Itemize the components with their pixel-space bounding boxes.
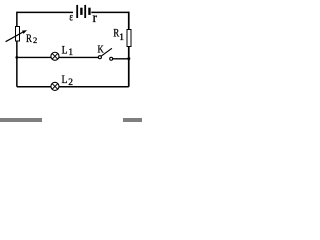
wire left vertical — [16, 12, 18, 87]
svg-text:1: 1 — [68, 48, 73, 58]
battery cell plate short thick 1 — [80, 8, 82, 15]
svg-text:ε: ε — [69, 9, 73, 23]
switch K contact terminal — [110, 57, 113, 60]
wire battery to top-right corner — [91, 11, 129, 13]
lamp L2 — [51, 82, 59, 90]
resistor R2 body (rheostat) — [16, 27, 20, 42]
svg-text:L: L — [62, 74, 68, 86]
switch K arm — [101, 48, 112, 56]
rheostat arrow shaft — [6, 32, 24, 42]
wire middle left branch through L1 to switch — [17, 56, 99, 58]
svg-text:2: 2 — [68, 78, 73, 88]
svg-text:2: 2 — [33, 35, 37, 45]
node junction right middle — [127, 57, 130, 60]
lamp L1 — [51, 52, 59, 60]
svg-text:L: L — [62, 45, 68, 57]
svg-text:R: R — [26, 31, 32, 45]
battery cell plate long 2 — [84, 5, 86, 18]
svg-text:1: 1 — [119, 33, 124, 43]
gray underline bar right — [123, 118, 142, 123]
gray underline bar left — [0, 118, 42, 122]
resistor R1 body — [127, 30, 131, 47]
rheostat arrow head — [22, 30, 27, 34]
wire top-left to battery — [17, 11, 73, 13]
svg-text:r: r — [93, 10, 98, 25]
wire bottom — [17, 86, 129, 88]
switch K pivot terminal — [98, 56, 101, 59]
wire middle right of switch — [113, 58, 129, 60]
battery cell plate long 1 — [76, 5, 78, 18]
node junction left middle — [15, 56, 18, 59]
svg-text:K: K — [98, 43, 104, 55]
battery cell plate short thick 2 — [88, 8, 90, 15]
wire right vertical — [128, 12, 130, 87]
